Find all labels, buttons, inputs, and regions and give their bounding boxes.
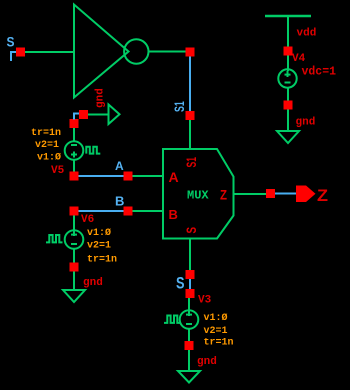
svg-text:v2=1: v2=1 (35, 140, 59, 151)
svg-text:B: B (115, 194, 124, 209)
node S upper (solder dot) (186, 270, 195, 279)
svg-text:A: A (115, 159, 124, 173)
svg-text:vdd: vdd (297, 28, 317, 40)
wire V5 bottom (73, 160, 75, 172)
svg-text:v1:Ø: v1:Ø (87, 227, 111, 239)
svg-text:S1: S1 (171, 101, 187, 112)
mux I0 (symbol body) (163, 149, 234, 239)
svg-text:MUX: MUX (187, 189, 209, 203)
wire net A (blue) (79, 175, 124, 177)
svg-text:S: S (176, 274, 185, 293)
svg-text:gnd: gnd (83, 277, 103, 289)
node at V5 top (solder dot) (70, 119, 79, 128)
wire (287, 88, 289, 101)
wire to gnd (V3) (188, 350, 190, 371)
svg-text:S: S (7, 34, 15, 50)
node B right (solder dot) (124, 207, 133, 216)
ground gnd (V4) (277, 131, 299, 143)
wire net S1 (blue vertical) (189, 57, 191, 112)
svg-text:v2=1: v2=1 (204, 326, 228, 337)
svg-text:Z: Z (220, 187, 227, 203)
svg-text:V6: V6 (81, 214, 94, 226)
svg-text:V5: V5 (51, 165, 65, 177)
wire B to MUX (133, 210, 164, 212)
ground gnd (V3) (178, 371, 200, 383)
node S1 lower (solder dot) (186, 111, 195, 120)
svg-text:A: A (169, 169, 179, 185)
source V4 (vdc) (278, 69, 296, 87)
svg-text:gnd: gnd (296, 117, 316, 129)
svg-text:V3: V3 (198, 295, 212, 307)
node A left (solder dot) (70, 172, 79, 181)
wire A to MUX (133, 175, 164, 177)
wire to V3 (188, 298, 190, 311)
node B left (solder dot) (70, 207, 79, 216)
svg-text:gnd: gnd (197, 356, 217, 368)
svg-text:S1: S1 (183, 157, 199, 168)
svg-text:gnd: gnd (95, 88, 107, 108)
node gnd branch (solder dot) (79, 110, 88, 119)
source V5 (vpulse) (65, 141, 84, 160)
node S1 (solder dot top) (186, 48, 195, 57)
svg-text:tr=1n: tr=1n (204, 338, 234, 349)
pulse waveform glyph (V6) (46, 235, 63, 242)
pin Z (output pin) (296, 186, 316, 203)
wire MUX S pin down (189, 239, 191, 271)
inverter bubble (124, 39, 148, 63)
svg-text:v1:Ø: v1:Ø (37, 152, 61, 164)
wire S pin to inverter input (25, 51, 74, 53)
wire inverter output to node S1 (148, 51, 186, 53)
pulse waveform glyph (V3) (164, 316, 181, 323)
wire to gnd (V4) (287, 110, 289, 132)
wire MUX Z output (234, 193, 267, 195)
svg-text:tr=1n: tr=1n (31, 128, 61, 139)
node Z (solder dot) (266, 189, 275, 198)
svg-text:tr=1n: tr=1n (87, 255, 117, 266)
svg-text:B: B (169, 207, 178, 222)
node V4 bottom (solder dot) (284, 101, 293, 110)
pin S (input pin, top-left) (7, 34, 26, 62)
wire net B (blue) (79, 210, 124, 212)
node V3 bottom (solder dot) (185, 341, 194, 350)
pulse waveform glyph (86, 147, 100, 154)
source V6 (vpulse) (65, 230, 84, 249)
node S lower (solder dot) (186, 289, 195, 298)
ground gnd (rotated right) (109, 105, 120, 125)
node V6 bottom (solder dot) (70, 263, 79, 272)
svg-text:V4: V4 (292, 53, 306, 65)
svg-text:S: S (183, 227, 199, 234)
wire net Z (blue) (275, 193, 296, 195)
wire net S (blue) (189, 279, 191, 290)
wire S1 to MUX Sbar pin (189, 120, 191, 149)
wire vdd down (287, 16, 289, 47)
wire V6 top (73, 216, 75, 232)
svg-text:vdc=1: vdc=1 (302, 66, 337, 79)
wire V3 bottom (188, 329, 190, 341)
wire V6 bottom (73, 249, 75, 263)
wire V5 top (73, 128, 75, 142)
node V4 top (solder dot) (284, 47, 293, 56)
node A right (solder dot) (124, 172, 133, 181)
svg-text:v2=1: v2=1 (87, 241, 111, 252)
wire to gnd symbol (88, 114, 109, 116)
svg-text:Z: Z (317, 186, 328, 205)
supply vdd (bar) (265, 15, 311, 18)
source V3 (vpulse) (180, 310, 199, 329)
inverter I (triangle) (74, 5, 129, 98)
svg-text:v1:Ø: v1:Ø (204, 312, 228, 324)
ground gnd (V6) (63, 290, 85, 302)
wire (287, 56, 289, 72)
wire (blue L to gnd branch) (74, 114, 79, 120)
wire to gnd (V6) (73, 272, 75, 291)
